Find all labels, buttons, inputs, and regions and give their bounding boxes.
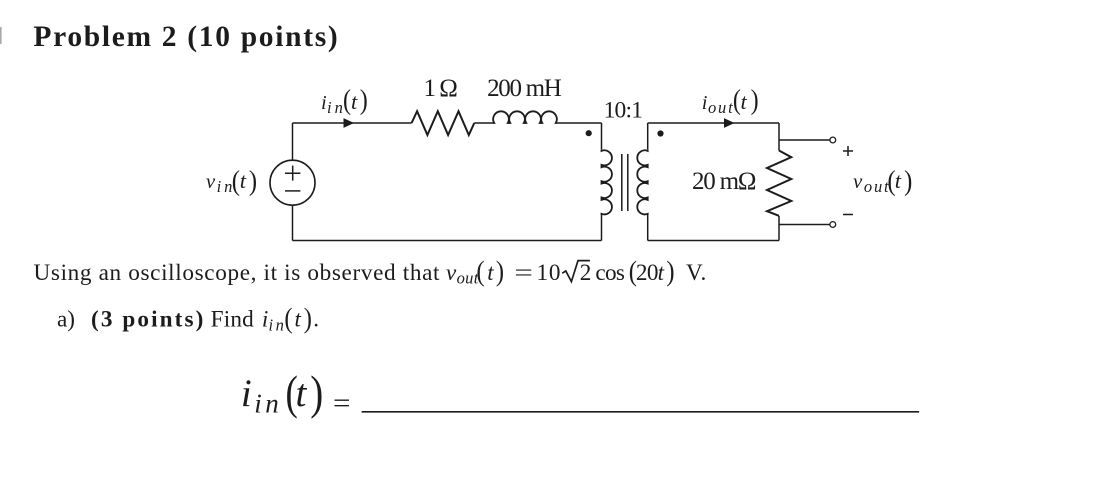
radical sign path bbox=[562, 261, 590, 282]
voltage source Vin circle bbox=[270, 160, 315, 205]
voltage source plus sign bbox=[285, 166, 300, 181]
svg-text:=: = bbox=[333, 388, 351, 418]
svg-text:t: t bbox=[351, 89, 358, 114]
svg-text:.: . bbox=[313, 307, 319, 333]
svg-text:1 Ω: 1 Ω bbox=[424, 75, 458, 102]
resistor R2 zigzag vertical bbox=[767, 151, 791, 216]
arrowhead for i_out current direction bbox=[724, 118, 735, 128]
wire: left vertical above source bbox=[292, 123, 294, 161]
svg-text:10: 10 bbox=[537, 260, 562, 286]
svg-text:20 mΩ: 20 mΩ bbox=[692, 168, 756, 195]
svg-text:i: i bbox=[241, 372, 252, 415]
svg-text:v: v bbox=[206, 171, 216, 193]
top output terminal circle bbox=[830, 137, 836, 143]
svg-text:t: t bbox=[487, 260, 494, 285]
svg-text:t: t bbox=[895, 168, 902, 193]
wire: bottom of primary loop bbox=[293, 240, 602, 242]
svg-text:2: 2 bbox=[580, 260, 592, 286]
svg-text:): ) bbox=[496, 255, 504, 287]
wire: right vertical below R2 bbox=[778, 216, 780, 241]
svg-text:i: i bbox=[262, 307, 268, 332]
inductor L1 coil humps bbox=[493, 111, 557, 123]
scan artifact left edge bbox=[0, 27, 2, 44]
answer blank underline bbox=[362, 411, 920, 413]
wire: bottom output terminal stub bbox=[779, 224, 830, 226]
transformer T1 secondary polarity dot bbox=[657, 130, 663, 136]
svg-text:i: i bbox=[702, 92, 708, 114]
wire: top output terminal stub bbox=[779, 139, 830, 141]
wire: secondary top bbox=[648, 122, 779, 124]
transformer T1 primary winding bbox=[602, 150, 612, 215]
transformer T1 primary polarity dot bbox=[586, 130, 592, 136]
transformer T1 primary vertical wire top bbox=[601, 123, 603, 150]
svg-text:Problem 2 (10 points): Problem 2 (10 points) bbox=[33, 21, 339, 53]
svg-text:(: ( bbox=[343, 84, 351, 115]
svg-text:out: out bbox=[864, 177, 890, 196]
svg-text:(: ( bbox=[232, 164, 240, 196]
svg-text:in: in bbox=[254, 389, 282, 419]
answer expression i_in(t) bbox=[241, 367, 323, 420]
wire: from L1 to transformer primary bbox=[557, 122, 602, 124]
node label i_out(t) bbox=[702, 84, 759, 116]
svg-text:): ) bbox=[751, 84, 759, 115]
svg-text:a): a) bbox=[57, 307, 75, 333]
transformer T1 primary vertical wire bottom bbox=[601, 215, 603, 241]
svg-text:20: 20 bbox=[636, 260, 658, 286]
source label v_in(t) bbox=[206, 164, 257, 196]
svg-text:200 mH: 200 mH bbox=[487, 75, 562, 102]
svg-text:=: = bbox=[514, 260, 533, 286]
svg-text:t: t bbox=[741, 89, 748, 114]
svg-text:): ) bbox=[304, 302, 312, 334]
svg-text:v: v bbox=[853, 171, 863, 193]
transformer T1 secondary winding bbox=[637, 150, 647, 215]
arrowhead for i_in current direction bbox=[344, 118, 355, 128]
voltage source minus sign bbox=[285, 190, 300, 192]
wire: left vertical below source bbox=[292, 205, 294, 241]
svg-text:): ) bbox=[360, 84, 368, 115]
resistor R1 zigzag bbox=[412, 111, 475, 135]
svg-text:Using an oscilloscope, it is o: Using an oscilloscope, it is observed th… bbox=[34, 260, 441, 286]
wire: right vertical above R2 bbox=[778, 123, 780, 151]
svg-text:(: ( bbox=[476, 255, 484, 287]
transformer T1 secondary vertical wire top bbox=[647, 123, 649, 150]
output label v_out(t) bbox=[853, 164, 912, 196]
math i_in(t). bbox=[262, 302, 319, 335]
transformer T1 core lines bbox=[622, 154, 628, 211]
node label i_in(t) bbox=[321, 84, 368, 116]
wire: top left from source to resistor R1 bbox=[293, 122, 412, 124]
svg-text:10:1: 10:1 bbox=[604, 98, 643, 124]
svg-text:cos: cos bbox=[595, 260, 624, 286]
plus polarity mark for vout bbox=[843, 146, 853, 156]
svg-text:V.: V. bbox=[686, 260, 707, 286]
svg-text:t: t bbox=[296, 372, 308, 415]
svg-text:): ) bbox=[249, 164, 257, 196]
svg-text:out: out bbox=[457, 269, 479, 288]
svg-text:v: v bbox=[446, 260, 457, 285]
svg-text:(: ( bbox=[284, 302, 292, 334]
wire: between R1 and inductor L1 bbox=[474, 122, 494, 124]
svg-text:Find: Find bbox=[211, 307, 255, 333]
svg-text:t: t bbox=[658, 260, 665, 285]
bottom output terminal circle bbox=[830, 222, 836, 228]
transformer T1 secondary vertical wire bottom bbox=[647, 215, 649, 241]
minus polarity mark for vout bbox=[843, 214, 853, 216]
svg-text:t: t bbox=[295, 307, 302, 332]
wire: secondary bottom bbox=[648, 240, 779, 242]
svg-text:): ) bbox=[666, 255, 674, 287]
svg-text:): ) bbox=[904, 164, 912, 196]
svg-text:): ) bbox=[310, 367, 323, 419]
svg-text:(3 points): (3 points) bbox=[91, 307, 205, 333]
svg-text:out: out bbox=[708, 98, 734, 117]
svg-text:t: t bbox=[240, 168, 247, 193]
